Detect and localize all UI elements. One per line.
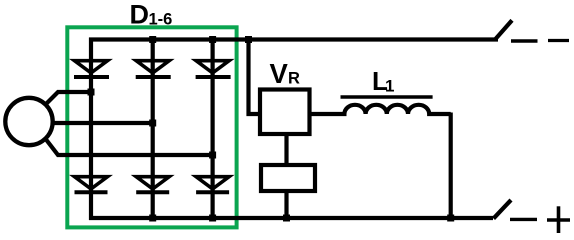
inductor L1 core bar <box>341 95 433 99</box>
node: top rail / VR drop junction <box>245 36 252 43</box>
wire bridge leg 1 vertical <box>89 38 93 221</box>
wire phase A (generator to leg 1) <box>45 92 92 106</box>
svg-text:D: D <box>130 0 150 29</box>
field/sense box below VR <box>261 165 315 191</box>
wire from top rail down to regulator VR input <box>249 40 261 115</box>
wire bottom DC rail (positive) <box>89 216 493 220</box>
terminal label minus (top right) <box>548 39 569 42</box>
wire bridge leg 2 vertical <box>151 40 155 219</box>
node: top rail / leg2 junction <box>149 36 156 43</box>
svg-text:1-6: 1-6 <box>149 10 173 28</box>
diode D3 (top row, leg 2) <box>136 61 171 77</box>
node: bottom rail / right leg junction <box>447 215 454 222</box>
generator G (alternator circle) <box>5 98 52 145</box>
wire bridge leg 3 vertical <box>211 40 215 219</box>
wire right vertical (L1 to bottom rail) <box>449 113 453 221</box>
wire VR bottom to sense box <box>284 134 288 165</box>
wire sense box to bottom rail <box>284 191 288 220</box>
node: bottom rail / leg3 junction <box>209 215 216 222</box>
node: phase B / leg2 junction <box>149 120 156 127</box>
svg-text:R: R <box>288 70 300 88</box>
diode D6 (bottom row, leg 3) <box>196 177 229 193</box>
switch S2 blade (bottom right) <box>494 200 512 219</box>
svg-text:1: 1 <box>385 76 394 95</box>
rectifier bridge enclosure (green box) <box>67 27 236 227</box>
terminal label plus (bottom right) <box>547 206 570 233</box>
wire phase B (generator to leg 2) <box>51 121 153 125</box>
wire phase C (generator to leg 3) <box>45 138 213 156</box>
node: phase C / leg3 junction <box>209 152 216 159</box>
wire VR output to inductor, coil of inductor L1, wire to right leg <box>310 105 451 114</box>
diode D4 (bottom row, leg 2) <box>136 177 169 193</box>
switch S2 fixed contact <box>510 218 537 221</box>
svg-text:V: V <box>270 58 289 89</box>
diode D2 (bottom row, leg 1) <box>75 177 108 193</box>
node: phase A / leg1 junction <box>88 89 95 96</box>
switch S1 blade (top right) <box>496 20 513 39</box>
node: bottom rail / sense box junction <box>283 215 290 222</box>
diode D1 (top row, leg 1) <box>74 61 109 77</box>
diode D5 (top row, leg 3) <box>196 61 231 77</box>
node: bottom rail / leg2 junction <box>149 215 156 222</box>
regulator VR (box) <box>260 90 310 135</box>
wire top DC rail (negative) <box>89 37 498 41</box>
switch S1 fixed contact <box>511 39 538 42</box>
node: top rail / leg3 junction <box>209 36 216 43</box>
